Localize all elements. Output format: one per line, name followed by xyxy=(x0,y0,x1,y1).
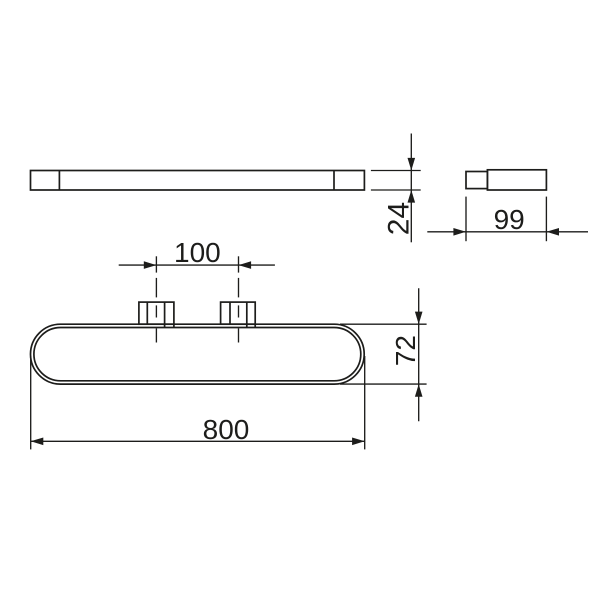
dim 72: bottom extension line xyxy=(340,383,427,385)
front view: bar left cap line xyxy=(58,171,60,191)
dim 24: bottom extension line xyxy=(371,189,421,191)
left bracket centerline dash 3 xyxy=(155,328,157,342)
front view: bar right cap line xyxy=(333,171,335,191)
svg-text:800: 800 xyxy=(203,414,250,445)
side view: wall plate rect xyxy=(466,172,487,189)
right bracket left divider xyxy=(229,302,231,324)
dim 800: right extension line xyxy=(364,356,366,449)
dim 800: dimension line xyxy=(31,440,365,442)
dim 99: dimension line xyxy=(427,231,588,233)
right bracket right foot xyxy=(254,324,256,327)
left bracket centerline dash 2 xyxy=(155,305,157,317)
dim 72: bottom arrowhead xyxy=(415,384,423,397)
top view: stadium inner outline xyxy=(34,328,361,381)
dim 100: left tick line xyxy=(155,256,157,272)
right bracket centerline dash 1 xyxy=(238,278,240,298)
dim 99: right arrowhead xyxy=(546,228,559,236)
dim 100: dimension line xyxy=(119,264,275,266)
svg-text:99: 99 xyxy=(494,204,525,235)
svg-text:72: 72 xyxy=(390,335,421,366)
left bracket body xyxy=(139,302,174,324)
dim 100: left arrowhead xyxy=(144,261,157,269)
side view: bar profile rect xyxy=(487,170,546,190)
dim 99: right extension line xyxy=(545,197,547,242)
left bracket right divider xyxy=(164,302,166,327)
top view: stadium outer outline xyxy=(31,324,365,384)
dim 72: top arrowhead xyxy=(415,312,423,325)
dim 24: top arrowhead xyxy=(408,158,416,171)
right bracket body xyxy=(221,302,256,324)
dim 800: right arrowhead xyxy=(352,438,365,446)
dim 72: vertical dimension line xyxy=(418,288,420,421)
svg-text:100: 100 xyxy=(174,237,221,268)
dim 800: left extension line xyxy=(30,356,32,449)
dim 72: top extension line xyxy=(340,323,427,325)
front view: bar outline xyxy=(31,171,365,191)
dim 100: right tick line xyxy=(238,256,240,272)
left bracket centerline dash 1 xyxy=(155,278,157,298)
svg-text:24: 24 xyxy=(382,202,415,235)
dim 24: vertical dimension line xyxy=(410,134,412,243)
left bracket right foot xyxy=(173,324,175,327)
dim 100: right arrowhead xyxy=(239,261,252,269)
right bracket right divider xyxy=(246,302,248,327)
dim 24: top extension line xyxy=(371,170,421,172)
right bracket centerline dash 2 xyxy=(238,305,240,317)
dim 800: left arrowhead xyxy=(31,438,44,446)
left bracket left divider xyxy=(146,302,148,324)
dim 99: left arrowhead xyxy=(453,228,466,236)
dim 24: bottom arrowhead xyxy=(408,190,416,203)
right bracket centerline dash 3 xyxy=(238,328,240,342)
dim 99: left extension line xyxy=(465,197,467,242)
